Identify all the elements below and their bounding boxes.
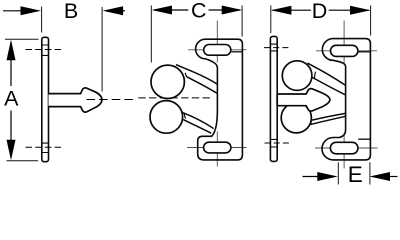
dimension D extension lines: [270, 6, 272, 34]
hole edge ticks bottom: [42, 143, 49, 152]
dimension E right arrow+line: [370, 172, 391, 181]
dimension B extension line right: [101, 7, 103, 92]
ear/strap internal edge top: [231, 51, 242, 53]
lower arm tick right view: [310, 120, 313, 124]
dimension A arrow down: [7, 140, 16, 161]
upper arm tick right view: [314, 72, 315, 78]
lower arm tick: [184, 114, 185, 119]
upper arm tick: [185, 73, 186, 77]
centerline top hole: [26, 49, 65, 51]
plate (edge view): [42, 37, 49, 161]
dimension E left line+arrow: [303, 176, 320, 178]
dimension C right arrow: [222, 6, 243, 15]
lower arm edges right view: [311, 113, 346, 120]
slot bottom: [204, 142, 231, 153]
slot crosshair bottom right view: [343, 133, 345, 169]
centerline ball: [87, 99, 136, 101]
slot crosshair bottom: [216, 132, 218, 167]
lower arm edges: [182, 112, 213, 128]
ball bottom (right view): [281, 103, 311, 133]
dimension C line: [154, 9, 188, 11]
hook arm + ball end (side): [49, 88, 102, 112]
dimension B right arrow+line: [103, 6, 124, 15]
mounting bar (edge view): [270, 36, 277, 161]
dimension A extension line top: [5, 38, 39, 40]
slot bottom right view: [330, 142, 358, 154]
middle knob (ball end pointing right): [277, 89, 330, 112]
upper arm edges: [176, 65, 217, 85]
svg-text:E: E: [348, 162, 363, 185]
svg-text:C: C: [191, 0, 207, 23]
ball top (right view): [282, 61, 312, 91]
hole edge ticks top: [42, 45, 49, 55]
ear internal edge bottom right view: [358, 138, 370, 140]
slot top: [204, 45, 231, 56]
centerline bottom hole: [26, 146, 65, 148]
bar centerline bottom: [265, 142, 290, 144]
dimension A arrow up: [7, 40, 16, 61]
ball bottom (front): [150, 101, 183, 134]
dimension D line: [273, 9, 311, 11]
slot crosshair top right view: [343, 21, 345, 65]
slot crosshair top: [216, 21, 218, 63]
svg-text:B: B: [64, 0, 78, 23]
upper arm edges right view: [307, 63, 345, 85]
dimension D left arrow: [271, 6, 292, 15]
dimension D right arrow: [350, 6, 371, 15]
dimension C extension lines: [150, 6, 152, 63]
dimension C left arrow: [152, 6, 173, 15]
bar centerline top: [264, 47, 290, 49]
dimension B left line+arrow: [3, 10, 23, 12]
bar hole ticks: [270, 44, 277, 51]
svg-text:A: A: [4, 86, 19, 110]
bracket outline (right view ears + strap): [322, 39, 370, 160]
dimension E extension lines: [337, 162, 339, 184]
svg-text:D: D: [312, 0, 328, 23]
dimension A extension line bottom: [7, 160, 39, 162]
ear internal edge top right view: [358, 51, 370, 53]
dimension B extension line left: [41, 7, 43, 33]
ball top (front): [151, 65, 184, 98]
bracket outline (ears + strap): [196, 39, 243, 160]
centerline balls tangent: [138, 97, 212, 99]
dimension A line: [10, 42, 12, 86]
slot top right view: [331, 45, 358, 56]
